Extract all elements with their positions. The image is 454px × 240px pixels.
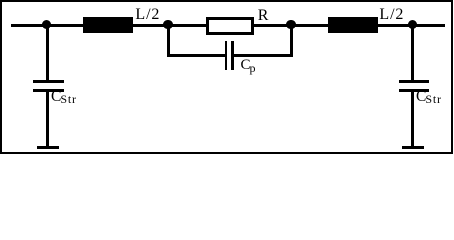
wire top segment 4	[378, 24, 445, 27]
capacitor Cp left plate	[225, 41, 227, 70]
wire parallel-branch right horizontal	[234, 54, 291, 57]
label CStr (left)	[51, 89, 77, 105]
label L/2 (right)	[379, 7, 404, 23]
wire left shunt vertical upper	[46, 24, 49, 80]
wire parallel-branch left horizontal	[168, 54, 225, 57]
terminal bar (right)	[402, 146, 424, 149]
node junction dot 1	[42, 20, 52, 30]
inductor L/2 (right)	[328, 17, 378, 33]
label CStr (right)	[416, 89, 442, 105]
wire right shunt vertical upper	[411, 24, 414, 80]
capacitor CStr (right) bottom plate	[399, 89, 430, 92]
capacitor Cp right plate	[231, 41, 234, 70]
label Cp	[241, 58, 256, 73]
label R	[258, 8, 269, 24]
wire left shunt vertical lower	[46, 92, 49, 146]
wire top segment 2	[133, 24, 206, 27]
wire right shunt vertical lower	[411, 92, 414, 146]
terminal bar (left)	[37, 146, 60, 149]
inductor L/2 (left)	[83, 17, 133, 33]
node junction dot 2	[163, 20, 173, 30]
wire top segment 1	[11, 24, 84, 27]
resistor R	[206, 17, 254, 35]
wire parallel-branch right vertical	[290, 24, 293, 57]
capacitor CStr (left) bottom plate	[33, 89, 64, 92]
wire top segment 3	[254, 24, 328, 27]
node junction dot 3	[286, 20, 296, 30]
label L/2 (left)	[135, 7, 160, 23]
wire parallel-branch left vertical	[167, 24, 170, 57]
node junction dot 4	[408, 20, 418, 30]
capacitor CStr (right) top plate	[399, 80, 430, 83]
capacitor CStr (left) top plate	[33, 80, 64, 83]
